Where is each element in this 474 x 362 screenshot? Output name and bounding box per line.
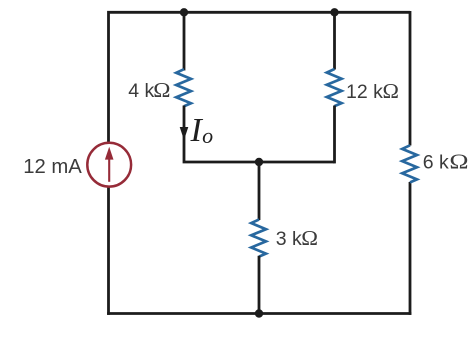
resistor R3 6 kOhm zigzag	[402, 145, 417, 182]
wire: right wire lower segment from 6k resistor to bottom rail	[409, 182, 412, 315]
wire: 12k branch from resistor down to middle rail	[333, 106, 336, 164]
wire: 4k branch from resistor down, corner to middle rail	[184, 106, 335, 163]
node dot: top rail at 4k branch	[180, 8, 188, 16]
svg-text:Ω: Ω	[449, 150, 468, 174]
node dot: top rail at 12k branch	[330, 8, 338, 16]
wire: 12k branch from top rail down to resistor	[333, 12, 336, 69]
wire: 3k branch from resistor down to bottom rail	[258, 256, 261, 314]
current source arrow head	[105, 147, 114, 160]
current source arrow shaft	[108, 157, 110, 182]
wire: bottom rail	[107, 312, 411, 315]
svg-text:6 k: 6 k	[423, 152, 449, 174]
svg-text:4 k: 4 k	[128, 80, 154, 102]
svg-text:Io: Io	[190, 112, 214, 149]
svg-text:Ω: Ω	[153, 78, 170, 102]
node dot: middle rail at 3k branch	[255, 158, 263, 166]
node dot: bottom rail at 3k branch	[255, 309, 263, 317]
resistor R2 12 kOhm zigzag	[327, 69, 342, 106]
svg-text:12 mA: 12 mA	[23, 156, 82, 178]
resistor R1 4 kOhm zigzag	[176, 69, 191, 106]
svg-text:Ω: Ω	[301, 225, 318, 249]
wire: 4k branch from top rail down to resistor	[183, 12, 186, 70]
wire: 3k branch from middle rail down to resistor	[258, 162, 261, 220]
wire: left wire lower segment from current source to bottom rail	[107, 187, 110, 315]
svg-text:Ω: Ω	[383, 79, 399, 103]
current source circle 12 mA	[87, 143, 131, 187]
resistor R4 3 kOhm zigzag	[251, 220, 266, 257]
arrowhead for current Io pointing down	[180, 127, 189, 140]
wire: left wire up from current source, top-left corner, top rail	[109, 12, 411, 142]
svg-text:12 k: 12 k	[346, 81, 383, 103]
wire: right wire upper segment down to 6k resistor	[409, 11, 412, 146]
svg-text:3 k: 3 k	[276, 228, 302, 250]
